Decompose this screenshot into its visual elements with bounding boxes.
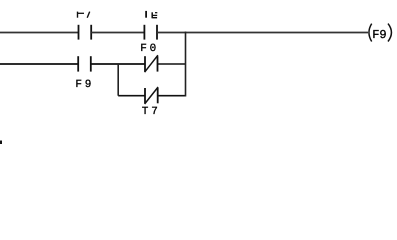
wire rung2 left segment [0,63,78,65]
wire rung2 mid segment [91,63,145,65]
wire rung1 right segment to coil [157,32,368,34]
wire rung2 to right junction [158,63,186,65]
contact F9 [78,56,91,71]
contact T7 (NC) [145,87,159,104]
wire branch drop at x=118 [117,64,119,96]
wire branch horizontal right [158,95,186,97]
wire rung1 left segment [0,32,79,34]
svg-text:F9: F9 [75,79,94,91]
wire branch horizontal left [118,95,145,97]
coil F9 right paren [388,24,391,42]
svg-text:F9: F9 [372,28,386,42]
label F7 (top-clipped fragment) [77,12,90,18]
contact F0 (NC) [145,55,158,72]
stray mark bottom-left [0,141,2,145]
svg-text:T7: T7 [142,106,161,118]
coil F9 left paren [369,24,372,42]
svg-text:F0: F0 [140,43,159,55]
label T6 (top-clipped fragment) [146,11,157,18]
wire rung1 mid segment [91,32,144,34]
contact T6 [144,25,157,40]
wire right junction vertical [185,32,187,97]
contact F7 [79,25,92,40]
